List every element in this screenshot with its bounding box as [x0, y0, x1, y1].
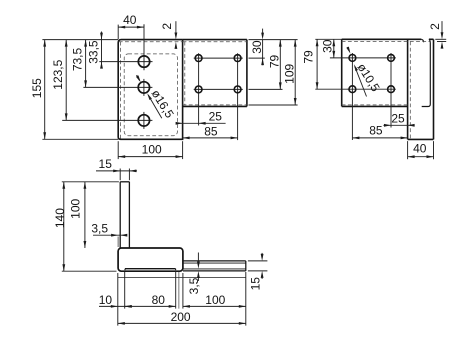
- svg-text:100: 100: [142, 143, 162, 157]
- svg-text:2: 2: [428, 23, 442, 30]
- svg-text:30: 30: [320, 39, 334, 53]
- view2 crosshair rows: [194, 57, 243, 59]
- svg-text:85: 85: [204, 125, 218, 139]
- view1 hidden edge vertical: [120, 42, 122, 139]
- view2 ext right: [249, 39, 298, 41]
- dim 33,5: [101, 32, 103, 69]
- view3 hidden vertical: [409, 42, 411, 139]
- hole A2 o16.5: [138, 82, 149, 93]
- dim 79 view3: [316, 39, 318, 89]
- dim 40: [117, 25, 119, 39]
- svg-text:200: 200: [171, 310, 191, 324]
- svg-text:85: 85: [369, 124, 383, 138]
- dim 73,5: [85, 40, 87, 88]
- leader o10,5: [348, 47, 350, 51]
- dim 10: [99, 305, 130, 307]
- ext arm top left: [62, 181, 119, 183]
- dim 155: [44, 40, 46, 140]
- svg-text:15: 15: [99, 157, 113, 171]
- svg-text:30: 30: [250, 40, 264, 54]
- hole A1 o16.5: [138, 56, 149, 67]
- svg-text:140: 140: [53, 208, 67, 228]
- svg-text:100: 100: [69, 198, 83, 218]
- box inner sheet: [125, 268, 176, 270]
- svg-text:109: 109: [283, 63, 297, 83]
- svg-text:100: 100: [205, 293, 225, 307]
- view2 hidden bottom: [183, 104, 247, 106]
- dim 80: [125, 305, 176, 307]
- hole B4: [234, 86, 241, 93]
- dim 15 top: [119, 169, 121, 181]
- svg-text:40: 40: [123, 13, 137, 27]
- profile corner box: [118, 248, 183, 271]
- hole A3 o16.5: [138, 115, 149, 126]
- view3 crosshair cols: [351, 53, 353, 140]
- dim 3,5 right: [197, 253, 199, 264]
- svg-text:25: 25: [391, 112, 405, 126]
- chain ext lines: [117, 273, 119, 326]
- profile right arm: [183, 260, 246, 262]
- view3 hidden bottom: [342, 104, 408, 106]
- svg-text:3,5: 3,5: [187, 277, 201, 294]
- hole A1 crosshair: [99, 61, 152, 63]
- hole B2: [234, 55, 241, 62]
- svg-text:79: 79: [302, 50, 316, 64]
- hole B3: [195, 86, 202, 93]
- dim 30 view2: [262, 29, 264, 34]
- dim 109 view2: [294, 40, 296, 105]
- svg-text:2: 2: [160, 23, 174, 30]
- dim 30 view3: [333, 39, 335, 58]
- view3 hidden top: [342, 41, 430, 43]
- svg-text:79: 79: [268, 55, 282, 69]
- svg-text:80: 80: [152, 293, 166, 307]
- dim 79 view2: [279, 40, 281, 90]
- svg-text:33,5: 33,5: [87, 40, 101, 64]
- hole C1: [349, 55, 356, 62]
- dim 15 right: [248, 260, 268, 262]
- svg-text:40: 40: [413, 142, 427, 156]
- baseline under profile: [118, 276, 246, 278]
- hole A2 crosshair: [83, 86, 152, 88]
- dim 200: [118, 322, 246, 324]
- view1 hidden plate outline dashed rect: [124, 54, 177, 136]
- svg-text:25: 25: [209, 110, 223, 124]
- svg-text:73,5: 73,5: [71, 47, 85, 71]
- dim 100 view1: [117, 141, 119, 159]
- dim 2 right: [435, 38, 446, 40]
- dim 40 view3: [407, 141, 409, 159]
- svg-text:3,5: 3,5: [91, 221, 108, 235]
- hole C3: [349, 86, 356, 93]
- leader o16,5: [137, 75, 140, 80]
- view2 hidden left: [184, 42, 186, 105]
- hole A3 crosshair: [62, 119, 152, 121]
- view3 crosshair rows: [348, 57, 396, 59]
- view1 hidden edge top: [119, 41, 183, 43]
- view2 outline: [183, 39, 247, 41]
- hole B1: [195, 55, 202, 62]
- dim 100 bottom: [183, 305, 246, 307]
- dim 3,5 left: [117, 237, 119, 248]
- hole C2: [388, 55, 395, 62]
- hole C4: [388, 86, 395, 93]
- svg-text:15: 15: [249, 277, 263, 291]
- dim 2 left: [175, 21, 177, 34]
- dim 25 view3: [383, 124, 414, 126]
- view3 ext left: [315, 38, 341, 40]
- ext top-left: [42, 39, 118, 41]
- dim 100 left: [84, 182, 86, 248]
- view3 outline: [341, 39, 343, 106]
- dim 123,5: [65, 40, 67, 121]
- profile vertical arm: [119, 182, 121, 248]
- svg-text:155: 155: [30, 78, 44, 98]
- view1 plate outline: [118, 40, 182, 140]
- dim 85 view3: [352, 137, 407, 139]
- svg-text:123,5: 123,5: [51, 59, 65, 89]
- svg-text:10: 10: [99, 293, 113, 307]
- dim 85 view2: [183, 137, 238, 139]
- dim 140: [63, 182, 65, 271]
- view2 crosshair cols: [198, 53, 200, 125]
- ext box bottom left: [62, 270, 117, 272]
- view2 hidden top: [183, 41, 247, 43]
- ext bottom-left: [42, 138, 118, 140]
- dim 25 view2: [177, 122, 226, 124]
